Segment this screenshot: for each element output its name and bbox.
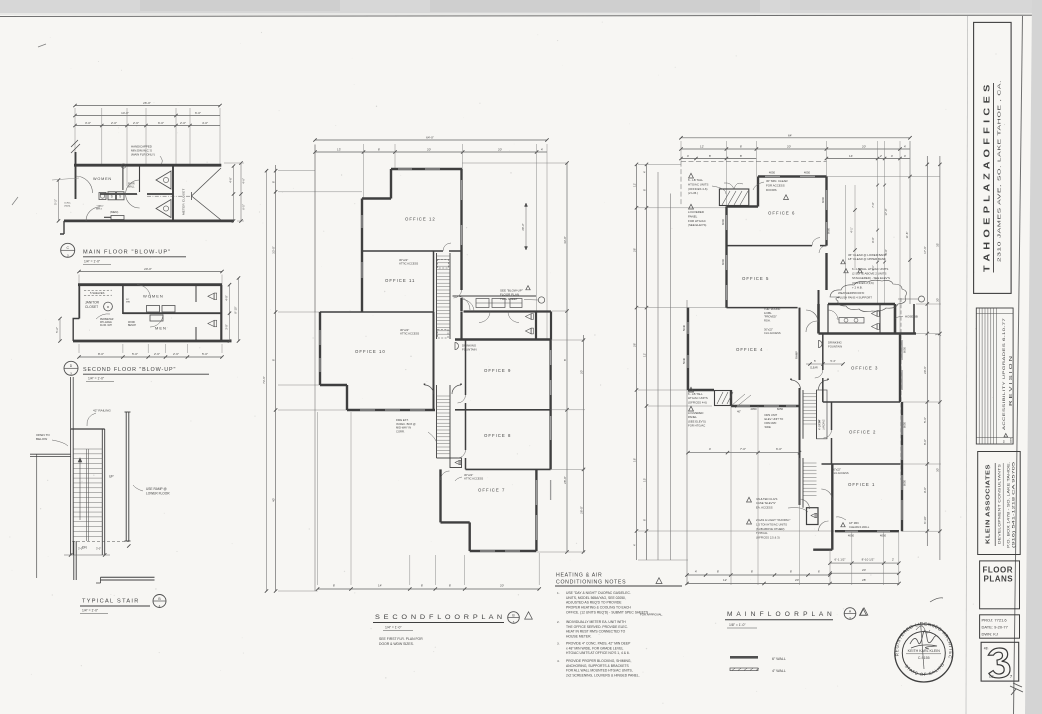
MF bottom extensions xyxy=(730,406,732,585)
stair treads xyxy=(73,449,102,536)
svg-text:OFFICE 4: OFFICE 4 xyxy=(736,347,763,352)
svg-text:6 - LB TALL: 6 - LB TALL xyxy=(688,178,704,182)
svg-text:12': 12' xyxy=(642,353,646,357)
svg-text:PROVIDE PROPER BLOCKING, SHI: PROVIDE PROPER BLOCKING, SHIMING, xyxy=(566,659,631,663)
svg-text:(2 SUITE ABOVE 2 UNITS: (2 SUITE ABOVE 2 UNITS xyxy=(852,272,886,276)
detail D overall dim 20ft xyxy=(79,271,222,273)
svg-text:6'-0": 6'-0" xyxy=(776,447,782,451)
svg-text:METER CLOSET: METER CLOSET xyxy=(182,189,186,215)
meter closet chevron doors xyxy=(192,168,222,196)
svg-text:FLOOR: FLOOR xyxy=(983,566,1014,575)
svg-text:6060: 6060 xyxy=(827,227,831,234)
svg-text:OFFICE 8: OFFICE 8 xyxy=(484,433,511,438)
svg-text:43'-0": 43'-0" xyxy=(563,236,567,244)
signature scribble xyxy=(910,631,939,644)
detail D right wall xyxy=(220,285,222,341)
svg-text:28': 28' xyxy=(632,343,636,347)
MF left dim lines xyxy=(636,164,638,560)
scanner gray band right xyxy=(1025,0,1042,714)
svg-text:HEAT IN REST RM'S CONNECTED T: HEAT IN REST RM'S CONNECTED TO xyxy=(566,630,626,634)
dashed line at stair break xyxy=(72,541,129,543)
core mid wall xyxy=(123,312,221,314)
SF top dim overall 64ft xyxy=(315,139,547,141)
svg-text:M: M xyxy=(107,305,109,309)
svg-text:USE RAMP @: USE RAMP @ xyxy=(146,487,167,491)
scanner gray band top xyxy=(0,0,1042,13)
svg-text:30"x22": 30"x22" xyxy=(464,473,473,477)
svg-text:40': 40' xyxy=(271,498,275,502)
svg-text:2'-6": 2'-6" xyxy=(154,352,160,356)
svg-text:ATTIC ACCESS: ATTIC ACCESS xyxy=(400,332,419,336)
detail C title circle xyxy=(61,243,75,257)
svg-text:5 SHELVES: 5 SHELVES xyxy=(90,291,105,295)
svg-text:4.: 4. xyxy=(557,659,560,663)
lower floor line xyxy=(101,576,155,578)
svg-text:4" WALL: 4" WALL xyxy=(772,669,786,673)
svg-text:8'-0": 8'-0" xyxy=(98,352,104,356)
svg-text:(MEN): (MEN) xyxy=(110,210,118,214)
svg-text:28': 28' xyxy=(632,248,636,252)
svg-text:30': 30' xyxy=(936,468,940,472)
SF bottom dim xyxy=(318,588,540,590)
svg-text:OFFICE 9: OFFICE 9 xyxy=(484,368,511,373)
svg-text:PANEL: PANEL xyxy=(688,214,698,218)
svg-text:6050: 6050 xyxy=(903,479,907,486)
svg-text:BELOW: BELOW xyxy=(36,437,47,441)
MF dashed line right xyxy=(900,298,902,480)
up arrow xyxy=(79,460,81,520)
svg-text:30"x22": 30"x22" xyxy=(764,328,773,332)
SF windows xyxy=(398,168,412,170)
svg-text:REVISION: REVISION xyxy=(1008,354,1013,406)
svg-text:28'-0": 28'-0" xyxy=(563,476,567,484)
SF stair upper xyxy=(436,253,438,339)
svg-text:HTG/AC UNITS: HTG/AC UNITS xyxy=(688,182,708,186)
small marks above stamp xyxy=(930,598,943,602)
svg-text:HOUSE METER.: HOUSE METER. xyxy=(566,635,592,639)
svg-text:20': 20' xyxy=(862,568,866,572)
stair title circle xyxy=(153,595,166,608)
svg-text:4050: 4050 xyxy=(804,171,811,175)
svg-text:20': 20' xyxy=(500,584,504,588)
detail C left wall xyxy=(75,152,77,199)
detail D bottom dims xyxy=(79,356,222,358)
svg-text:SECOND FLOOR "BLOW-UP": SECOND FLOOR "BLOW-UP" xyxy=(83,367,176,373)
svg-text:2 GAS & LIGHT "DUOPAC": 2 GAS & LIGHT "DUOPAC" xyxy=(756,518,790,522)
svg-text:1.5 TON HTG/AC UNITS: 1.5 TON HTG/AC UNITS xyxy=(756,522,787,526)
SF restroom bottom wall xyxy=(455,338,551,340)
svg-text:4'-1": 4'-1" xyxy=(850,227,854,232)
svg-text:1/4" = 1'-0": 1/4" = 1'-0" xyxy=(385,626,402,630)
svg-text:OFFICE. (12 UNITS REQ'D) - SU: OFFICE. (12 UNITS REQ'D) - SUBMIT SPEC S… xyxy=(566,610,649,614)
svg-text:(2 H.B.): (2 H.B.) xyxy=(688,191,698,195)
paper crease bottom right xyxy=(1010,683,1023,695)
svg-text:EA. ACCESS: EA. ACCESS xyxy=(756,505,773,509)
svg-text:7'-0": 7'-0" xyxy=(740,447,746,451)
svg-text:64'-0": 64'-0" xyxy=(426,136,434,140)
svg-text:DRS UNIT: DRS UNIT xyxy=(765,413,778,417)
svg-text:4050: 4050 xyxy=(750,407,757,411)
lavatory S boxes xyxy=(108,192,116,200)
MF office2 walls xyxy=(831,402,833,430)
svg-text:CORR.: CORR. xyxy=(396,429,405,433)
svg-text:18" MIN: 18" MIN xyxy=(849,521,859,525)
svg-text:6'-5": 6'-5" xyxy=(242,204,246,210)
svg-text:3.: 3. xyxy=(557,642,560,646)
svg-text:FLOR. W/H: FLOR. W/H xyxy=(100,325,112,327)
SF wc at stair xyxy=(450,458,462,468)
svg-text:30"x22": 30"x22" xyxy=(399,258,408,262)
toilet left of lavs xyxy=(99,193,106,200)
SF partition 12/11 xyxy=(362,250,443,252)
svg-text:1/4" = 1'-0": 1/4" = 1'-0" xyxy=(88,377,105,381)
svg-text:FOUNTAIN: FOUNTAIN xyxy=(828,344,842,348)
detail D left dim xyxy=(59,319,61,342)
svg-text:HEATING & AIR: HEATING & AIR xyxy=(556,573,602,579)
svg-text:CONC.: CONC. xyxy=(64,203,71,205)
svg-text:20': 20' xyxy=(862,145,866,149)
MF office3 walls xyxy=(822,334,824,371)
SF top extension lines xyxy=(314,144,316,312)
janitor partition xyxy=(122,285,124,314)
MF right dim lines xyxy=(926,156,928,546)
svg-text:OFFICE 11: OFFICE 11 xyxy=(385,278,415,283)
svg-text:2'-0": 2'-0" xyxy=(111,121,117,125)
MF bottom dims main xyxy=(687,574,830,576)
svg-text:3: 3 xyxy=(849,616,851,620)
MF windows xyxy=(765,176,780,178)
svg-text:PROJ: 7721.6: PROJ: 7721.6 xyxy=(982,618,1008,623)
svg-text:1/4" = 1'-0": 1/4" = 1'-0" xyxy=(84,260,101,264)
svg-text:DATE: DATE xyxy=(1010,437,1013,443)
MF mech closet hatched xyxy=(719,189,748,206)
svg-text:KEITH KARL KLEIN: KEITH KARL KLEIN xyxy=(908,649,941,653)
svg-text:9'-0": 9'-0" xyxy=(923,487,927,493)
svg-text:HOSE BB: HOSE BB xyxy=(905,315,918,319)
svg-text:FRM W/D: FRM W/D xyxy=(765,421,777,425)
door arcs detail C xyxy=(76,176,93,193)
svg-text:13': 13' xyxy=(337,148,341,152)
svg-text:3'-9": 3'-9" xyxy=(225,324,229,330)
svg-text:(OFFICES 2,5 & 3): (OFFICES 2,5 & 3) xyxy=(756,536,780,540)
detail C extension lines xyxy=(74,108,76,164)
svg-text:MIN: MIN xyxy=(126,302,130,304)
svg-text:SIDE: SIDE xyxy=(765,425,771,429)
svg-text:OFFICE 3: OFFICE 3 xyxy=(851,366,878,371)
svg-text:3: 3 xyxy=(70,372,72,376)
stall partitions xyxy=(122,165,124,190)
SF restroom door arcs xyxy=(456,296,470,310)
door arcs detail D xyxy=(137,285,151,299)
svg-text:OFFICE 10: OFFICE 10 xyxy=(355,349,386,354)
svg-text:OFFICE 5: OFFICE 5 xyxy=(742,276,769,281)
svg-text:FIRE EXT.: FIRE EXT. xyxy=(396,418,409,422)
MF door arcs xyxy=(812,238,820,246)
svg-text:33'-0": 33'-0" xyxy=(271,246,275,254)
svg-text:OFFICE 7: OFFICE 7 xyxy=(478,488,505,493)
svg-text:(916) 541-1218 CA 9570: (916) 541-1218 CA 95705 xyxy=(1012,462,1016,548)
svg-text:+ 2 H.B.: + 2 H.B. xyxy=(852,285,863,289)
svg-text:5'-4": 5'-4" xyxy=(830,359,835,363)
svg-text:INDIVIDUALLY METER EA. UNIT: INDIVIDUALLY METER EA. UNIT WITH xyxy=(566,620,626,624)
svg-text:MTL.EDGE: MTL.EDGE xyxy=(100,322,112,324)
svg-text:30" MIN. CLEAR: 30" MIN. CLEAR xyxy=(766,179,788,183)
svg-text:4th: 4th xyxy=(984,647,989,651)
SF right dim line 1 xyxy=(566,163,568,552)
svg-text:14'-0": 14'-0" xyxy=(121,111,129,115)
mid plumbing wall xyxy=(100,193,137,195)
svg-text:UNITS, MODEL 565A/YAG, SEE 020: UNITS, MODEL 565A/YAG, SEE 02050, xyxy=(566,596,626,600)
SF right extensions xyxy=(462,162,568,164)
detail C dimension row 2 xyxy=(75,115,220,117)
svg-text:OFFICE 2: OFFICE 2 xyxy=(849,430,876,435)
svg-text:FOR APPROVAL.: FOR APPROVAL. xyxy=(640,613,663,617)
svg-text:6060: 6060 xyxy=(821,196,825,203)
SF corridor left wall xyxy=(433,251,435,312)
SF exterior walls office 12 xyxy=(391,168,462,170)
detail D left wall upper xyxy=(78,285,80,319)
svg-text:" WALL": " WALL" xyxy=(96,205,104,208)
detail C room top wall xyxy=(74,164,221,167)
MF bottom dims right xyxy=(830,562,899,564)
floor plans box xyxy=(980,561,1020,609)
toilets detail D xyxy=(208,293,214,299)
svg-text:(SEE ELEV'S): (SEE ELEV'S) xyxy=(688,223,706,227)
pencil scuffs xyxy=(12,44,46,205)
svg-text:5'-0": 5'-0" xyxy=(132,352,138,356)
svg-text:T A H O E P L A Z A O F F: T A H O E P L A Z A O F F I C E S xyxy=(983,84,992,272)
svg-text:20'-6": 20'-6" xyxy=(923,366,927,374)
detail C room bottom wall xyxy=(64,219,234,222)
SF partition 11/10 xyxy=(320,311,434,313)
svg-text:THE OFFICE SERVED. PROVIDE: THE OFFICE SERVED. PROVIDE ELEC. xyxy=(566,625,628,629)
MF lower stair treads xyxy=(803,463,817,495)
MF left extensions xyxy=(638,163,681,165)
stair right rail xyxy=(101,429,103,555)
svg-text:OFFICE 1: OFFICE 1 xyxy=(848,482,875,487)
svg-text:6050: 6050 xyxy=(903,346,907,353)
svg-text:4: 4 xyxy=(159,604,161,608)
svg-text:8'-10": 8'-10" xyxy=(923,516,927,524)
SF stair lower xyxy=(436,385,438,458)
svg-text:6'-0": 6'-0" xyxy=(195,111,201,115)
svg-text:x 48" MIN WIDE, FOR GRADE LEV: x 48" MIN WIDE, FOR GRADE LEVEL xyxy=(566,646,623,650)
svg-text:6'-0": 6'-0" xyxy=(158,121,164,125)
SF lavatories xyxy=(476,299,489,308)
detail C left dim 5-2 xyxy=(58,180,60,221)
svg-text:PROVIDE 4" CONC. PADS, 42" MIN: PROVIDE 4" CONC. PADS, 42" MIN DEEP xyxy=(566,642,631,646)
svg-text:CLEARLS WALL: CLEARLS WALL xyxy=(849,525,870,529)
detail C dimension row 3 xyxy=(75,125,220,127)
svg-text:4050: 4050 xyxy=(769,171,776,175)
svg-text:73'-6": 73'-6" xyxy=(262,376,266,384)
SF outer left dim line xyxy=(266,170,268,591)
svg-text:6060: 6060 xyxy=(721,218,725,225)
svg-text:DWN: KJ: DWN: KJ xyxy=(982,632,998,637)
MF annotation gas light units xyxy=(747,519,752,524)
svg-text:1:12: 1:12 xyxy=(817,420,821,426)
detail D top wall xyxy=(78,283,222,286)
MF annotation vaulted xyxy=(747,497,752,502)
svg-text:WORK: WORK xyxy=(128,322,136,324)
detail C dimension row overall 26ft xyxy=(75,105,220,107)
detail C right dim 6-0 xyxy=(240,163,242,221)
svg-text:3'-0": 3'-0" xyxy=(85,121,91,125)
detail D title circle xyxy=(64,361,78,375)
svg-text:LNDG.: LNDG. xyxy=(64,205,71,207)
sheet top edge line xyxy=(0,15,1042,16)
svg-text:CLG ACCESS: CLG ACCESS xyxy=(764,331,781,335)
svg-text:3'-0": 3'-0" xyxy=(78,547,83,551)
MF dashed second floor outline xyxy=(681,161,827,163)
SF left extensions xyxy=(278,170,315,172)
wall connector below detail D xyxy=(70,377,72,429)
lavatories detail D xyxy=(147,306,160,313)
MF partition 5 bottom xyxy=(727,307,798,309)
svg-text:42" RAILING: 42" RAILING xyxy=(93,409,111,413)
svg-text:TYPICAL STAIR: TYPICAL STAIR xyxy=(82,599,140,605)
svg-text:ATTIC ACCESS: ATTIC ACCESS xyxy=(399,262,418,266)
MF annotation louvered xyxy=(689,204,694,209)
svg-text:KLEIN ASSOCIATES: KLEIN ASSOCIATES xyxy=(986,464,992,544)
svg-text:WOMEN: WOMEN xyxy=(143,294,164,299)
svg-text:ELEV. UNIT TO: ELEV. UNIT TO xyxy=(765,417,784,421)
stair top edge xyxy=(71,428,105,430)
svg-text:6050: 6050 xyxy=(903,421,907,428)
svg-text:4050: 4050 xyxy=(880,534,887,538)
SF top dim row2 xyxy=(315,151,547,153)
MF right wall upper xyxy=(825,177,827,246)
svg-text:11'-6": 11'-6" xyxy=(905,232,909,239)
wall legend xyxy=(730,656,758,659)
svg-text:30"x22": 30"x22" xyxy=(400,328,409,332)
detail D left step xyxy=(73,319,79,342)
detail D bottom wall xyxy=(73,340,232,343)
svg-text:15': 15' xyxy=(642,478,646,482)
mop sink circle xyxy=(104,302,113,311)
svg-text:6050: 6050 xyxy=(777,407,784,411)
svg-text:3: 3 xyxy=(513,620,515,624)
stair left rail xyxy=(70,429,72,555)
svg-text:5'-6": 5'-6" xyxy=(923,417,927,423)
svg-text:5'-2": 5'-2" xyxy=(55,327,59,333)
svg-text:3: 3 xyxy=(67,254,69,258)
MF restroom core walls xyxy=(828,303,895,306)
svg-text:DOORS: DOORS xyxy=(766,188,777,192)
svg-text:PLANS: PLANS xyxy=(984,575,1014,584)
svg-text:8'-0": 8'-0" xyxy=(871,237,875,242)
MF extra right extensions xyxy=(827,176,941,178)
MF annotation units staggered xyxy=(844,269,848,273)
left wall below stair xyxy=(73,541,75,580)
svg-text:RGH.: RGH. xyxy=(764,318,771,322)
svg-text:(OFFICES 4-6): (OFFICES 4-6) xyxy=(688,187,707,191)
svg-text:1.: 1. xyxy=(557,591,560,595)
warning triangle near stamp xyxy=(859,609,866,616)
svg-text:NO: NO xyxy=(1004,440,1006,443)
svg-text:30': 30' xyxy=(936,298,940,302)
paper speckles xyxy=(335,125,336,126)
svg-text:FOR ALL WALL MOUNTED HTG/AC UN: FOR ALL WALL MOUNTED HTG/AC UNITS, xyxy=(566,669,633,673)
svg-text:"PROVED": "PROVED" xyxy=(764,315,777,319)
MF top extensions xyxy=(680,141,682,162)
svg-text:14': 14' xyxy=(378,584,382,588)
svg-text:WOMEN: WOMEN xyxy=(93,177,112,181)
svg-text:ANCHORING, SUPPORTS & BRACKET: ANCHORING, SUPPORTS & BRACKETS xyxy=(566,664,630,668)
SF office 8 walls xyxy=(549,410,551,470)
svg-text:S E C O N D F L O O R P L: S E C O N D F L O O R P L A N xyxy=(375,614,503,621)
svg-text:WALL: WALL xyxy=(128,186,135,189)
svg-text:DEVELOPMENT CONSULTANTS: DEVELOPMENT CONSULTANTS xyxy=(998,463,1002,544)
men fixture xyxy=(111,216,124,220)
sheet right edge line xyxy=(1014,16,1023,714)
MF office1 walls xyxy=(831,464,833,550)
sheet number box xyxy=(981,642,1019,681)
svg-text:4'-6": 4'-6" xyxy=(229,177,233,182)
svg-text:RAMP: RAMP xyxy=(795,351,799,359)
svg-text:7'-0": 7'-0" xyxy=(871,202,875,207)
svg-text:2310 JAMES AVE, SO. LAKE TAH: 2310 JAMES AVE, SO. LAKE TAHOE , CA. xyxy=(997,80,1002,262)
svg-text:MAIN FLOOR "BLOW-UP": MAIN FLOOR "BLOW-UP" xyxy=(83,250,171,256)
svg-text:3'-0": 3'-0" xyxy=(96,547,101,551)
detail D right dims xyxy=(229,285,231,341)
svg-text:18': 18' xyxy=(632,458,636,462)
svg-text:LOUVERED: LOUVERED xyxy=(688,210,704,214)
SF door arcs xyxy=(443,243,451,251)
svg-text:ADJUSTED AS REQ'D TO PROVIDE: ADJUSTED AS REQ'D TO PROVIDE xyxy=(566,601,622,605)
svg-text:14': 14' xyxy=(849,154,853,158)
svg-text:OFFICE 12: OFFICE 12 xyxy=(405,217,436,222)
MF drinking fountain xyxy=(819,341,823,348)
MF partition 6/5 xyxy=(727,245,813,247)
big sheet number 3 xyxy=(987,647,1010,678)
revision table xyxy=(976,308,1013,444)
svg-text:20': 20' xyxy=(498,148,502,152)
svg-text:6" WALL: 6" WALL xyxy=(772,657,786,661)
svg-text:4'-9": 4'-9" xyxy=(225,295,229,301)
SF office12 right wall xyxy=(460,169,462,290)
svg-text:USE "DAY & NIGHT" DUOPAC GAS/E: USE "DAY & NIGHT" DUOPAC GAS/ELEC. xyxy=(566,591,631,595)
svg-text:17'-6": 17'-6" xyxy=(923,246,927,254)
svg-text:5'-0": 5'-0" xyxy=(202,352,208,356)
svg-text:5'-2": 5'-2" xyxy=(54,199,58,205)
MF lower door arcs xyxy=(800,499,810,509)
MF annotation corrals wall xyxy=(841,523,845,527)
svg-text:4050: 4050 xyxy=(848,534,855,538)
svg-text:ATTIC ACCESS: ATTIC ACCESS xyxy=(464,477,483,481)
svg-text:CLEAR: CLEAR xyxy=(810,367,818,370)
svg-text:2'-6": 2'-6" xyxy=(133,121,139,125)
stair center stringer xyxy=(86,449,88,541)
MF top dim overall 64ft xyxy=(681,137,910,139)
svg-text:PERIMETER: PERIMETER xyxy=(100,319,114,321)
svg-text:BENCH: BENCH xyxy=(128,325,136,327)
svg-text:PROPER HEATING & COOLING TO E: PROPER HEATING & COOLING TO EACH xyxy=(566,606,631,610)
svg-text:12': 12' xyxy=(632,183,636,187)
MF entry arcs xyxy=(791,380,801,390)
svg-text:DATE: 9-20-77: DATE: 9-20-77 xyxy=(982,625,1009,630)
svg-text:HTG/AC UNITS AT OFFICE NO'S 1,: HTG/AC UNITS AT OFFICE NO'S 1, 4 & 6. xyxy=(566,651,630,655)
detail C upper left flag xyxy=(71,140,80,153)
svg-text:4'-6": 4'-6" xyxy=(242,178,246,184)
Klein Associates box xyxy=(978,452,1021,555)
svg-text:UP: UP xyxy=(109,475,114,479)
svg-text:6060: 6060 xyxy=(721,258,725,265)
SF office 7 walls xyxy=(439,469,441,522)
svg-text:LOWER FLOOR: LOWER FLOOR xyxy=(146,492,170,496)
svg-text:2x2 SCREENING, LOUVERS & HINGE: 2x2 SCREENING, LOUVERS & HINGED PANEL. xyxy=(566,674,640,678)
svg-text:IN REC. BOX @: IN REC. BOX @ xyxy=(396,422,416,426)
